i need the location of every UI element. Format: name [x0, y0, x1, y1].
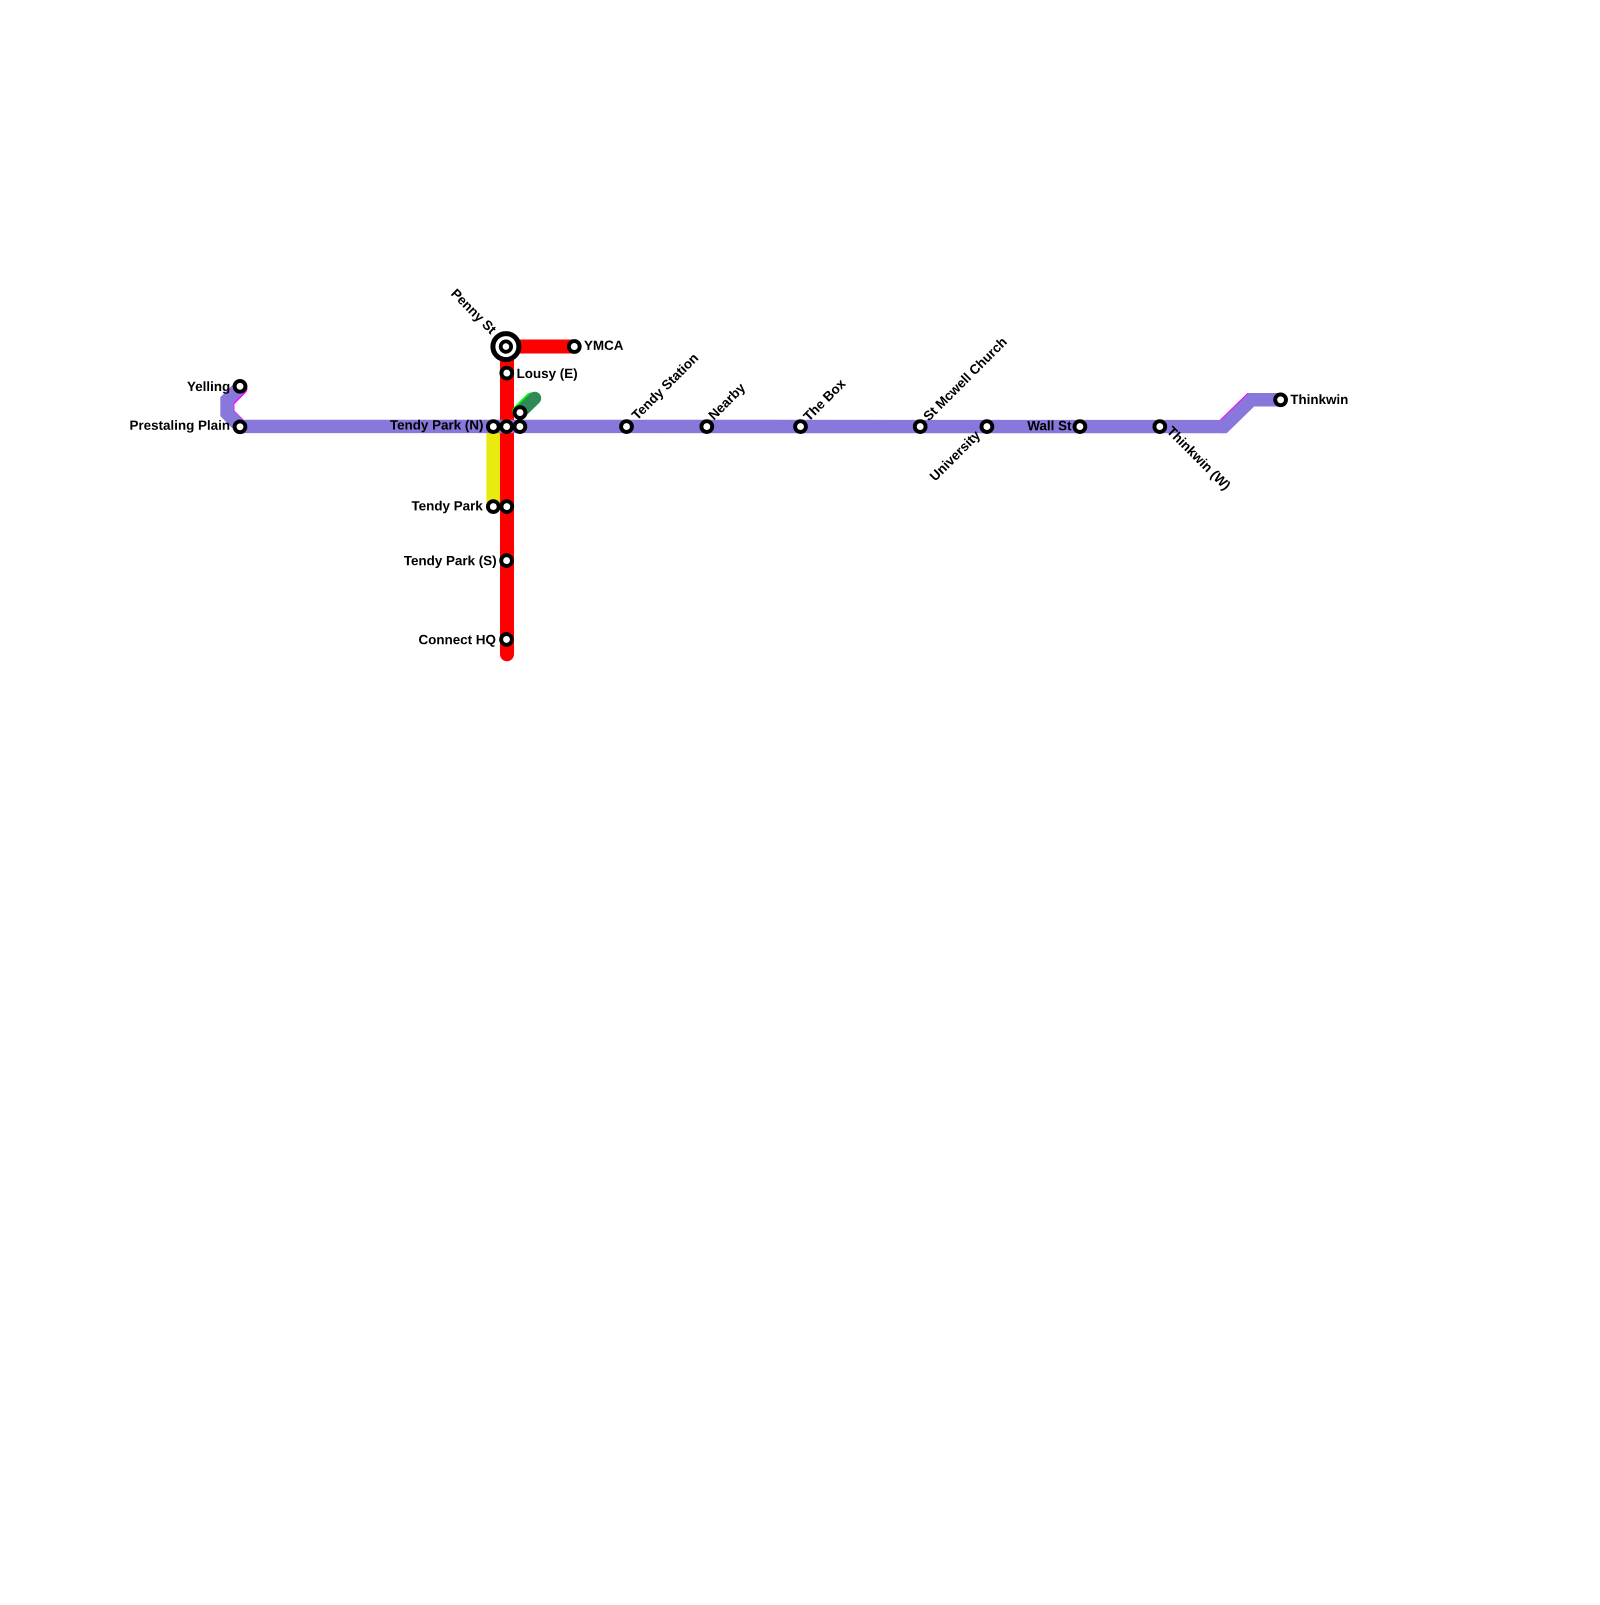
- label University (rotated): [929, 429, 983, 483]
- station Tendy Park (S): [501, 555, 512, 566]
- station green spur end: [515, 407, 526, 418]
- station Yelling: [235, 381, 246, 392]
- label Wall St: [1027, 421, 1071, 431]
- lime underlay of green spur: [519, 399, 531, 411]
- magenta underlay left (Yelling curve): [228, 388, 241, 426]
- purple line A main path: [227, 387, 1281, 427]
- label Thinkwin: [1291, 394, 1348, 404]
- station The Box: [795, 421, 806, 432]
- red line B vertical Penny St to south cap: [500, 347, 514, 655]
- label St Mcwell Church (rotated): [922, 336, 1007, 421]
- magenta underlay right (Thinkwin diagonal): [1223, 400, 1279, 427]
- station Tendy Station: [621, 421, 632, 432]
- station St Mcwell Church: [915, 421, 926, 432]
- label Penny St (rotated): [449, 288, 497, 336]
- station Thinkwin: [1275, 394, 1286, 405]
- label Connect HQ: [419, 635, 495, 647]
- station Thinkwin (W): [1154, 421, 1165, 432]
- label Tendy Park (S): [404, 556, 496, 569]
- label Lousy (E): [518, 368, 578, 381]
- station Nearby: [701, 421, 712, 432]
- green spur line: [520, 398, 535, 412]
- label YMCA: [584, 341, 623, 351]
- station Tendy Park b: [501, 501, 512, 512]
- station Wall St: [1075, 421, 1086, 432]
- label Tendy Park (N): [390, 420, 483, 433]
- label Thinkwin (W) (rotated): [1164, 425, 1231, 492]
- label The Box (rotated): [802, 378, 846, 422]
- red line B horizontal Penny St to YMCA: [506, 340, 574, 354]
- station University: [982, 421, 993, 432]
- station YMCA: [569, 341, 580, 352]
- station Prestaling Plain: [235, 421, 246, 432]
- label Tendy Station (rotated): [630, 352, 700, 422]
- yellow line C Tendy Park (N) to Tendy Park: [486, 427, 500, 507]
- label Yelling: [187, 381, 229, 394]
- station Lousy (E): [501, 368, 512, 379]
- station Tendy Park (N) a: [488, 421, 499, 432]
- station Tendy Park (N) c: [515, 421, 526, 432]
- station Tendy Park a: [488, 501, 499, 512]
- label Prestaling Plain: [130, 420, 229, 433]
- interchange Penny St: [493, 334, 519, 360]
- label Tendy Park: [412, 501, 483, 514]
- station Connect HQ: [501, 634, 512, 645]
- station Tendy Park (N) b: [501, 421, 512, 432]
- label Nearby (rotated): [708, 382, 748, 422]
